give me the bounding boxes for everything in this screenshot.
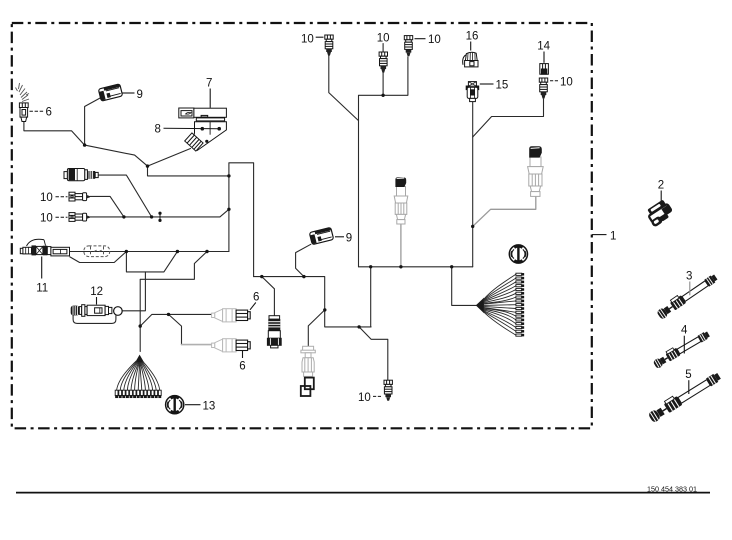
- label leader 10 top-b: [382, 44, 384, 53]
- wire branch to connector 6a: [140, 314, 211, 326]
- svg-text:6: 6: [253, 292, 259, 304]
- plug 10 top-c: [404, 36, 412, 57]
- right ghost connector (sensor): [528, 157, 544, 196]
- svg-text:150 454 383 01: 150 454 383 01: [647, 485, 697, 494]
- label 12: [90, 286, 103, 304]
- wire to ghost boot connector: [308, 310, 325, 346]
- cap plug 16: [463, 52, 478, 67]
- svg-text:9: 9: [137, 89, 143, 101]
- svg-text:16: 16: [466, 31, 479, 43]
- plug 10 row2 (horizontal): [69, 213, 90, 222]
- black boot of ghost connector: [301, 378, 314, 396]
- label 15: [480, 80, 508, 92]
- connector 6a: [212, 309, 251, 322]
- wire drop to dark plug connector: [262, 277, 275, 316]
- breakout fan 13 terminals: [115, 390, 161, 397]
- label 10 row2: [40, 213, 68, 225]
- bundle vertical left pair: [229, 163, 254, 277]
- wire junction B to bundle vertical: [148, 166, 229, 176]
- label 6b leader: [239, 351, 245, 372]
- wire drop to eyelet 12: [122, 272, 145, 311]
- svg-text:9: 9: [346, 233, 352, 245]
- dash-dot border of harness group 1: [12, 23, 592, 428]
- wire from connector 9 to junction A: [85, 98, 101, 146]
- label 10 top-c: [415, 34, 441, 46]
- wire branch down to eyelet of 12: [126, 252, 177, 272]
- svg-text:6: 6: [239, 360, 245, 372]
- bracket module 7: [179, 108, 227, 121]
- svg-text:5: 5: [685, 369, 691, 381]
- valve connector 11: [20, 239, 69, 256]
- big loop top and verticals: [359, 57, 408, 267]
- lower loop bottom wire: [254, 277, 372, 327]
- svg-text:7: 7: [206, 78, 212, 90]
- svg-text:10: 10: [40, 213, 53, 225]
- svg-text:14: 14: [537, 41, 550, 53]
- label 10 bottom: [358, 392, 382, 404]
- wire net row2 horizontal: [90, 209, 229, 217]
- svg-text:8: 8: [155, 124, 161, 136]
- label 5: [685, 369, 691, 394]
- wire from connector 6 left to junction A: [24, 122, 85, 146]
- cable assembly 3: [655, 272, 718, 320]
- connector 2: [644, 199, 674, 228]
- dark ribbed plug: [267, 316, 281, 348]
- wire from plug 10 right / 14: [473, 99, 544, 137]
- wire from plug 10 top-a: [329, 56, 359, 121]
- plug 10 top-b: [379, 52, 387, 73]
- svg-text:12: 12: [90, 286, 103, 298]
- svg-text:10: 10: [301, 34, 314, 46]
- svg-text:6: 6: [46, 107, 52, 119]
- label 9b: [335, 233, 352, 245]
- plug 10 bottom: [384, 380, 392, 401]
- wire from plug 10 row1 to net row2: [90, 196, 124, 217]
- cable assembly 5: [647, 370, 722, 423]
- label 10 right: [550, 76, 573, 88]
- right breakout fan apex: [476, 298, 484, 314]
- grommet 14: [540, 64, 549, 75]
- svg-text:10: 10: [40, 192, 53, 204]
- right breakout fan wires: [484, 274, 516, 335]
- connector 9 top: [98, 84, 122, 101]
- black cap of right ghost connector: [529, 146, 542, 157]
- svg-text:11: 11: [36, 283, 48, 295]
- sensor plug 15: [466, 82, 479, 102]
- svg-text:15: 15: [496, 80, 509, 92]
- node 1 leader tick: [592, 234, 607, 236]
- breakout fan 13 wires: [117, 361, 160, 390]
- svg-text:2: 2: [658, 180, 664, 192]
- right breakout fan terminals: [516, 273, 524, 336]
- label 11: [36, 257, 48, 295]
- label 13: [185, 400, 215, 412]
- ghost mating connector (dashed): [84, 246, 110, 257]
- connector 6 left: [16, 83, 30, 122]
- inline fuse holder 12: [71, 305, 123, 317]
- grey lead of connector 6b: [182, 344, 212, 346]
- elbow housing 8: [185, 122, 227, 151]
- label 6 left: [30, 107, 52, 119]
- plug 10 row1 (horizontal): [69, 192, 90, 201]
- big loop bottom wire: [359, 266, 473, 268]
- label 8 leader with pins: [155, 124, 222, 143]
- svg-text:10: 10: [560, 76, 573, 88]
- wire from connector 9b: [296, 244, 311, 276]
- wire branch to fan trunk: [140, 252, 207, 352]
- svg-text:10: 10: [358, 392, 371, 404]
- wire junction A to junction B: [85, 145, 148, 166]
- wire branch to connector 6b: [169, 314, 182, 344]
- junction dots: [83, 94, 475, 329]
- grey lead of right ghost connector: [473, 196, 536, 226]
- svg-text:10: 10: [377, 33, 390, 45]
- main harness wire to item 11: [70, 251, 229, 253]
- connector 6b: [212, 339, 251, 352]
- label 10 top-a: [301, 34, 324, 46]
- bottom rule line: [16, 492, 710, 494]
- ghost boot connector: [301, 346, 315, 376]
- right trunk vertical from connector 15: [472, 102, 474, 267]
- cylindrical connector: [64, 169, 98, 181]
- twin-dot junction symbol on net row2: [158, 212, 161, 222]
- connector 9b: [309, 227, 333, 244]
- svg-text:13: 13: [203, 400, 216, 412]
- label 16: [466, 31, 479, 51]
- round connector right: [509, 245, 527, 263]
- svg-text:3: 3: [686, 271, 692, 283]
- wire from cylinder connector to net row2: [98, 175, 152, 217]
- loop under item 12: [73, 316, 116, 324]
- grey lead of mid ghost connector: [400, 224, 402, 267]
- label 3: [686, 271, 692, 296]
- wire branch to plug 10 bottom: [359, 327, 388, 380]
- wire from plug 10 top-b: [382, 71, 384, 95]
- plug 10 top-a: [325, 35, 333, 56]
- svg-text:1: 1: [610, 231, 616, 243]
- label 7: [206, 78, 212, 108]
- wire to right fan apex: [452, 267, 477, 306]
- round connector 13: [166, 396, 184, 414]
- label 4: [681, 325, 688, 354]
- wire drop from loop bottom: [370, 267, 372, 327]
- label 14: [537, 41, 550, 63]
- wire junction B up to elbow boot 8: [148, 149, 191, 167]
- strap loop under ghost connector: [70, 252, 127, 263]
- label 9 top: [123, 89, 143, 101]
- label 6a leader: [250, 292, 259, 310]
- cable assembly 4: [652, 329, 711, 369]
- plug 10 right: [539, 78, 547, 99]
- mid ghost connector (sensor): [394, 187, 408, 225]
- svg-text:10: 10: [428, 34, 441, 46]
- label 2: [658, 180, 664, 201]
- breakout fan 13 trunk apex: [135, 355, 144, 363]
- black cap of mid ghost connector: [395, 177, 406, 187]
- label 10 row1: [40, 192, 68, 204]
- svg-text:4: 4: [681, 325, 688, 337]
